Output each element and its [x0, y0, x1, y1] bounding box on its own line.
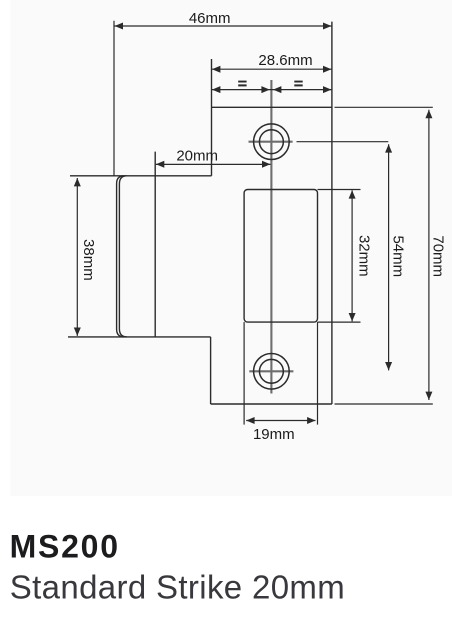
svg-text:38mm: 38mm — [80, 239, 97, 281]
svg-text:54mm: 54mm — [390, 235, 407, 277]
svg-text:20mm: 20mm — [176, 147, 218, 164]
svg-text:70mm: 70mm — [430, 235, 447, 277]
svg-text:19mm: 19mm — [253, 426, 295, 443]
svg-text:MS200: MS200 — [10, 529, 120, 565]
svg-text:28.6mm: 28.6mm — [258, 52, 312, 69]
svg-text:32mm: 32mm — [355, 235, 372, 277]
svg-text:46mm: 46mm — [189, 10, 231, 27]
svg-text:Standard Strike 20mm: Standard Strike 20mm — [10, 569, 345, 606]
